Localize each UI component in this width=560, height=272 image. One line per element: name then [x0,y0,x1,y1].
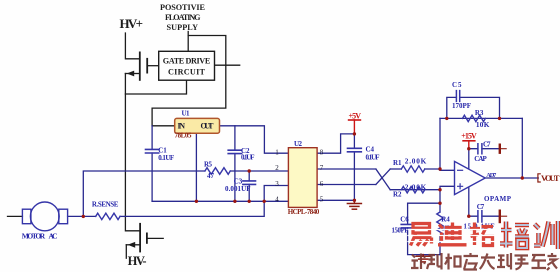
wire C7 top leads [469,148,499,150]
transistor Q2 drain path from sense node [125,216,140,230]
svg-text:AD7: AD7 [486,172,496,179]
watermark char 4 (pei) red outline [500,222,529,249]
capacitor C6 plates [401,224,414,228]
svg-text:0.1UF: 0.1UF [366,154,380,162]
transistor Q2 (lower MOSFET channel bar) [139,224,141,252]
wire C4 branch upper [353,134,355,148]
gate drive circuit box [159,51,215,80]
wire op-amp positive supply [468,149,470,170]
wire C6 branch from plus node [408,203,440,224]
wire R5 output to U2 pin2 [230,170,288,172]
svg-text:R4: R4 [441,216,450,224]
wire Q1 source vertical down to sense node [124,74,126,217]
svg-text:3: 3 [275,180,279,188]
wire C5 row left riser [447,97,457,118]
svg-text:AC: AC [49,231,58,240]
node U1 gnd on rail [195,200,198,203]
wire sense node up and right to R5 / pin2 [83,171,205,216]
node +15V junction [467,147,470,150]
svg-text:5: 5 [320,196,324,204]
node -15 junction [467,215,470,218]
watermark char 1 (yi) [411,224,432,246]
transistor Q1 (upper MOSFET channel bar) [139,52,141,80]
svg-text:C7: C7 [477,203,485,211]
wire R1 to op-amp minus input [425,169,455,170]
svg-text:2.00K: 2.00K [405,157,427,166]
svg-text:HCPL-7840: HCPL-7840 [288,208,320,216]
svg-text:8: 8 [320,148,324,156]
svg-text:R3: R3 [475,109,484,117]
node pin5/C4 ground junction [353,199,356,202]
svg-text:78L05: 78L05 [175,132,193,140]
ground symbol at R4/C6 bottom [416,255,430,262]
wire motor left lead [8,215,23,217]
wire R4 bottom to ground link [439,236,441,255]
wire U2 pin3 lead and drop to rail [264,186,288,202]
wire X to R1 [390,168,401,170]
watermark char 2 (di) [438,223,467,245]
+15V power symbol [463,141,475,149]
node C5 left on feedback rail [445,117,448,120]
wire C6 lower lead to ground link [408,228,440,255]
svg-text:7: 7 [320,164,324,172]
svg-text:+15V: +15V [461,132,477,141]
tagline char 8 zhuan [532,255,547,268]
tagline char 6 she [497,253,512,270]
svg-text:SUPPLY: SUPPLY [167,23,199,32]
node motor/sense junction [82,215,85,218]
node pin3 drop on rail [263,200,266,203]
svg-text:POSOTIVIE: POSOTIVIE [160,3,206,12]
svg-text:R2: R2 [393,191,402,199]
wire floating supply stub down to gate drive box top [187,32,189,52]
svg-text:1: 1 [275,148,279,156]
svg-text:U2: U2 [294,140,303,148]
capacitor C7 bottom plates (vertical) [478,211,482,222]
wire feedback left vertical to minus node [439,118,441,169]
svg-text:2.00K: 2.00K [405,182,427,191]
wire X to R2 [390,189,440,191]
regulator U1 box [175,118,220,133]
svg-text:R5: R5 [204,161,213,169]
tagline char 7 ji [515,256,529,270]
svg-text:C4: C4 [366,146,375,154]
wire C4 branch lower [353,152,355,201]
resistor R5 zigzag [205,168,230,175]
svg-text:170PF: 170PF [452,102,471,110]
node +5V junction [353,132,356,135]
capacitor C4 plates [348,148,362,152]
isolation amplifier U2 box [288,148,317,208]
svg-text:IN: IN [178,122,186,131]
wire Q1 gate lead to gate drive box [147,65,159,67]
wire crossover X upper-to-lower [376,169,390,190]
terminal bar of C7 top [499,145,501,153]
resistor R4 zigzag (vertical) [437,212,443,236]
wire feedback rail down to output node [521,118,523,178]
wire Q1 source lead [125,73,139,75]
wire GND1 return from pin4 rail down to sense line [125,201,264,216]
svg-text:6: 6 [320,180,324,188]
node output / feedback [521,176,524,179]
wire R sense right lead to junction [120,215,125,217]
capacitor C5 plates (vertical) [456,91,459,102]
resistor R3 zigzag [463,115,486,121]
svg-text:C7: C7 [483,140,491,148]
svg-text:OUT: OUT [201,122,215,131]
wire Q2 source down to HV- [125,245,127,258]
svg-text:R.SENSE: R.SENSE [92,201,119,209]
transistor Q1 gate bar [146,59,148,73]
capacitor C1 plates [146,149,159,153]
wire U1 GND pin down to rail [195,133,197,201]
tagline char 2 pin [427,253,442,270]
terminal bar of C7 bottom [499,211,501,222]
node plus input / R2 [438,188,441,191]
watermark tagline dark red text [411,253,557,270]
svg-text:R1: R1 [393,159,402,167]
svg-text:2: 2 [275,164,279,172]
+5V power symbol [349,120,361,134]
wire Q2 gate lead [147,237,163,239]
transistor Q1 source arrow [127,71,135,77]
wire C7 bottom leads [469,215,499,217]
wire U2 pin8 to +5V node [317,134,354,153]
wire op-amp output to VOUT [485,177,538,179]
capacitor C7 top plates (vertical) [478,144,482,154]
svg-text:+5V: +5V [349,112,362,121]
svg-text:C5: C5 [452,81,462,89]
node C3 on rail [248,200,251,203]
node minus input / feedback [438,167,441,170]
tagline char 4 tian [464,253,479,270]
ground symbol at C4 / pin5 [347,200,361,209]
watermark stripes over big chars [408,230,495,242]
tagline char 5 xian [480,254,495,270]
wire C2 branch upper [234,126,236,150]
tagline char 3 he [445,254,461,270]
svg-text:HV+: HV+ [120,16,144,31]
svg-text:U1: U1 [182,109,191,117]
wire U1 IN lead [152,125,175,127]
wire op-amp negative supply [468,187,470,216]
watermark char 5 (xun) blue inner [534,221,558,249]
wire motor right lead [68,215,96,217]
wire U2 pin6 lead [317,184,376,186]
op-amp U3 triangle [455,161,486,194]
transistor Q2 gate bar [146,233,148,243]
svg-text:47: 47 [207,172,215,180]
wire crossover X lower-to-upper [376,169,390,185]
watermark big red logo text [411,223,494,246]
motor M1 circle [30,202,59,231]
svg-text:0.001UF: 0.001UF [225,185,251,193]
wire feedback rail [440,117,522,119]
svg-text:MOTOR: MOTOR [22,231,46,240]
svg-text:C6: C6 [400,215,409,223]
wire floating supply rail right and down [152,36,226,126]
node C5 right on feedback rail [498,117,501,120]
wire GND1 rail (pin 4 row) [152,200,288,202]
svg-text:0.1UF: 0.1UF [158,154,174,162]
op-amp plus input symbol [458,184,463,189]
wire Q2 source lead [126,244,140,246]
watermark char 5 (xun) red outline [534,221,558,249]
capacitor C3 plates [243,181,256,185]
svg-text:CIRCUIT: CIRCUIT [168,68,206,77]
wire gate drive return to Q1 source [125,80,186,94]
node C6 branch [438,202,441,205]
resistor R2 zigzag [401,187,424,193]
op-amp minus input symbol [458,169,463,171]
VOUT bracket [538,174,540,182]
wire U2 pin5 lead to ground node [317,199,354,201]
resistor R1 zigzag [401,166,424,172]
wire C1 branch lower [151,153,153,201]
wire U2 pin7 lead [317,168,376,170]
wire R2 node jog to op-amp plus input [440,186,455,189]
wire C3 branch lower [248,184,250,201]
motor M1 left brush [22,209,31,224]
wire C3 branch upper [248,171,250,181]
wire C5 row right segment and riser [460,97,500,118]
wire HV+ rail to Q1 drain [125,33,139,59]
watermark char 3 (tuo) [470,223,493,246]
tagline char 1 she [411,254,426,270]
motor M1 right brush [59,209,68,224]
wire plus node down to R4/C6 branch [439,190,441,212]
svg-text:150PF: 150PF [392,227,409,234]
svg-text:4: 4 [275,196,279,204]
wire U1 OUT rail to U2 pin1 [220,126,289,153]
svg-text:OPAMP: OPAMP [484,195,512,203]
svg-text:10K: 10K [476,120,490,129]
svg-text:HV-: HV- [128,254,147,268]
node C3 top on R5 line [248,169,251,172]
tagline char 9 jia [547,253,557,270]
wire C1 branch upper [151,126,153,150]
wire gate drive box right stub [215,64,240,66]
svg-text:VOUT: VOUT [541,173,560,183]
wire C2 branch lower [234,154,236,202]
resistor RSENSE zigzag [96,213,120,219]
svg-text:0.1UF: 0.1UF [241,154,255,162]
svg-text:CAP: CAP [474,155,487,163]
svg-text:GATE DRIVE: GATE DRIVE [163,57,211,66]
transistor Q2 source arrow [128,242,136,248]
node C2 on rail [233,200,236,203]
watermark char 4 (pei) blue inner [500,222,529,249]
capacitor C2 plates [228,150,241,153]
svg-text:FLOATING: FLOATING [165,13,201,22]
